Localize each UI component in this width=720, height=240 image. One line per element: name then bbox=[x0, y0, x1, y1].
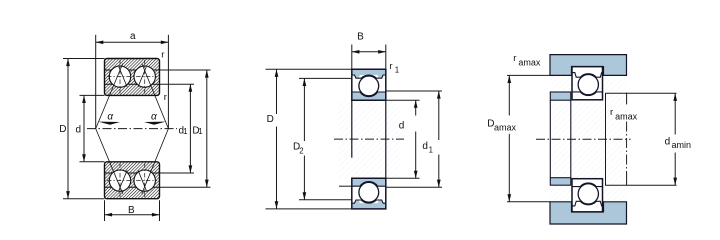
svg-text:r: r bbox=[610, 107, 613, 118]
svg-text:amax: amax bbox=[494, 122, 517, 132]
svg-text:d: d bbox=[665, 136, 671, 147]
svg-text:r: r bbox=[161, 50, 164, 61]
svg-text:r: r bbox=[513, 53, 516, 64]
svg-text:d: d bbox=[76, 124, 82, 135]
svg-text:B: B bbox=[128, 205, 135, 216]
svg-text:amax: amax bbox=[518, 58, 541, 68]
svg-text:a: a bbox=[130, 31, 136, 42]
svg-text:1: 1 bbox=[395, 65, 400, 74]
svg-text:D: D bbox=[59, 124, 66, 135]
svg-text:d: d bbox=[399, 121, 405, 132]
svg-text:D: D bbox=[267, 114, 274, 125]
svg-text:α: α bbox=[107, 111, 113, 122]
svg-text:B: B bbox=[357, 32, 364, 43]
svg-text:r: r bbox=[164, 92, 167, 103]
svg-text:amax: amax bbox=[615, 112, 638, 122]
svg-text:1: 1 bbox=[429, 145, 433, 154]
svg-text:α: α bbox=[151, 111, 157, 122]
svg-text:d: d bbox=[422, 141, 428, 152]
svg-text:r: r bbox=[389, 61, 392, 72]
svg-text:2: 2 bbox=[299, 147, 303, 156]
svg-text:1: 1 bbox=[198, 127, 202, 136]
svg-text:1: 1 bbox=[183, 127, 187, 136]
svg-text:amin: amin bbox=[672, 140, 692, 150]
